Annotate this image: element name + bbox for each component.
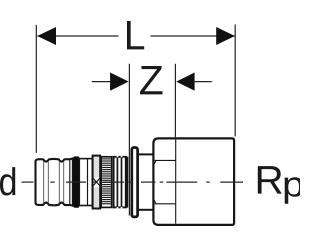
body (female thread housing) [153,138,234,225]
label Rp glyph p [285,177,303,204]
knurled sleeve column [101,157,111,208]
neck bottom edge [139,209,154,211]
knurl texture (fine horizontal lines) [102,159,111,204]
dimension L line right segment [151,35,235,37]
ring notch bottom 1 [117,207,119,209]
end ring dark column [125,157,128,208]
hex chamfer bottom-left [153,198,156,204]
extension line Z left [128,64,130,216]
X mark stroke 1 [93,178,100,186]
wire groove line 2a [58,161,60,203]
mid section between band and crimp column [79,159,92,206]
arrowhead L right [216,27,235,45]
wire groove line 2b [63,161,65,203]
neck top edge [139,153,154,155]
label d [0,167,15,195]
threaded rings block [114,157,126,208]
ring notch top 2 [121,155,123,157]
hex flat top line [155,159,176,161]
dimension L line left segment [37,35,118,37]
centerline (dash-dot axis, drawn as explicit segments) [22,181,243,183]
dimension Z tail left [92,81,111,83]
label L [127,21,144,49]
ring divider 2 [121,157,123,208]
crimp indicator column (with X mark) [93,156,101,209]
extension line L right [234,24,236,136]
hex boundary vertical line [175,140,177,224]
hex chamfer top-left [153,161,156,167]
white gap at X [94,177,100,186]
ring notch bottom 2 [121,207,123,209]
seal band (black ring) [73,156,79,207]
flange ring (collar disc) [132,148,138,217]
rib line pair before seal band [69,159,71,206]
extension line L left [35,25,37,153]
arrowhead Z left (points right) [110,73,129,91]
hex flat bottom line [155,203,176,205]
extension line Z right [174,64,176,138]
arrowhead Z right (points left) [176,73,194,91]
label Z [140,66,163,94]
ring divider 1 [116,157,118,208]
wire groove line 1b [47,161,49,203]
X mark stroke 2 [93,178,100,186]
dimension Z tail right [195,81,212,83]
wire groove line 1a [43,161,45,203]
press-end outline (barbed sleeve silhouette) [36,158,74,205]
rib line in mid section [87,158,89,206]
label Rp [258,166,282,194]
arrowhead L left [37,27,56,45]
ring notch top 1 [117,155,119,157]
